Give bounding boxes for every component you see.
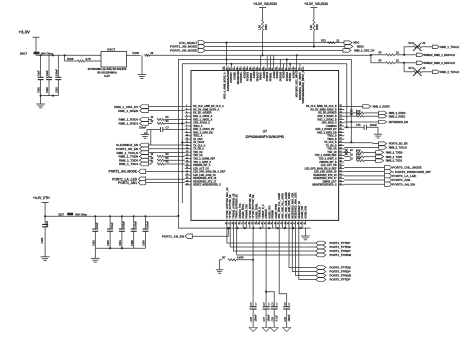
capacitor C203 wire xyxy=(57,55,59,77)
node C164 xyxy=(121,215,123,217)
wire pin drop xyxy=(260,55,262,66)
wire r548 join xyxy=(395,54,405,56)
svg-text:26: 26 xyxy=(225,222,227,224)
wire pin drop xyxy=(286,60,288,67)
wire R158 branch xyxy=(64,55,66,61)
wire ring1 xyxy=(178,60,351,216)
svg-text:38: 38 xyxy=(265,222,267,224)
wire capA drop xyxy=(252,225,254,307)
wire RMII_1_TXCLK xyxy=(149,152,185,154)
svg-text:100: 100 xyxy=(223,67,225,70)
pin stub left 17 xyxy=(185,158,191,160)
svg-text:10nF: 10nF xyxy=(38,70,41,76)
ground ETH caps xyxy=(91,257,100,259)
wire capC feed xyxy=(266,292,274,307)
svg-text:C192: C192 xyxy=(38,87,41,93)
svg-text:R146: R146 xyxy=(133,51,140,55)
pin stub bottom 29 xyxy=(236,220,238,224)
svg-text:77: 77 xyxy=(298,68,300,70)
wire PORT1_AN1 xyxy=(146,182,185,184)
wire pin drop xyxy=(273,55,275,66)
net arrow RMII_2_TXCLK dnp xyxy=(432,70,439,73)
svg-text:91: 91 xyxy=(253,68,255,70)
svg-text:MDC: MDC xyxy=(354,41,360,45)
net lens PORT0_TPTDM xyxy=(316,266,326,270)
wire PORT1_SD_EN xyxy=(149,148,185,150)
pin stub right 72 xyxy=(339,115,345,117)
svg-text:49: 49 xyxy=(300,222,303,224)
pin stub left 7 xyxy=(185,125,191,127)
wire pin drop xyxy=(266,55,268,66)
wire PORT1_AN_MODE run xyxy=(205,46,345,48)
svg-text:89: 89 xyxy=(259,68,261,70)
wire PORT0_CHL_MODE xyxy=(344,167,384,169)
wire dnp1 b xyxy=(404,46,413,48)
net arrow RMII_2_TXD1 xyxy=(376,159,384,162)
wire SD_EN xyxy=(344,142,378,145)
wire dnp2 v xyxy=(403,63,405,72)
capacitor C164 wire xyxy=(121,216,123,229)
net flag PORT0_AN_EN xyxy=(385,182,392,186)
pin stub right 69 xyxy=(339,125,345,127)
svg-text:83: 83 xyxy=(279,68,281,70)
svg-text:50MHZ_RMII_1_REFCLK: 50MHZ_RMII_1_REFCLK xyxy=(424,53,455,57)
svg-text:68: 68 xyxy=(340,128,342,130)
pin stub right 68 xyxy=(339,128,345,130)
node v2-row link xyxy=(181,141,183,143)
pin stub left 4 xyxy=(185,115,191,117)
pin stub top 88 xyxy=(263,66,265,70)
wire RMII_2_TXEN b xyxy=(364,151,376,153)
pin stub top 76 xyxy=(302,66,304,70)
pin stub left 13 xyxy=(185,145,191,147)
wire c74-clk25 link xyxy=(150,130,152,146)
wire c74 right xyxy=(163,129,185,131)
svg-text:72: 72 xyxy=(340,115,342,117)
svg-text:27: 27 xyxy=(229,222,231,224)
svg-text:100nF: 100nF xyxy=(55,69,58,76)
wire rbias right xyxy=(236,259,253,261)
capacitor C77 xyxy=(263,306,270,308)
node C166 xyxy=(144,215,146,217)
wire pin-gnd drop xyxy=(232,225,234,229)
svg-text:VDDIO/RESERVED_INPUT_X: VDDIO/RESERVED_INPUT_X xyxy=(302,70,305,103)
svg-text:28: 28 xyxy=(232,222,234,224)
svg-text:10uF: 10uF xyxy=(96,222,99,228)
node gndbus xyxy=(236,227,238,229)
svg-text:R1?: R1? xyxy=(409,42,414,45)
pin stub top 86 xyxy=(270,66,272,70)
svg-text:35: 35 xyxy=(255,222,257,224)
node rail-C202 xyxy=(52,54,54,56)
svg-text:43: 43 xyxy=(280,222,283,224)
ground C77 xyxy=(262,328,270,332)
svg-text:79: 79 xyxy=(292,68,294,70)
node rail-C192 xyxy=(40,54,42,56)
node C162 xyxy=(94,215,96,217)
wire cap25 a xyxy=(344,126,364,128)
wire pin-gnd drop xyxy=(242,225,244,229)
svg-text:85: 85 xyxy=(272,68,274,70)
pin stub bottom 33 xyxy=(249,220,251,224)
wire pin-gnd drop xyxy=(249,225,251,229)
svg-text:RMII_2_CRS_DV: RMII_2_CRS_DV xyxy=(354,49,375,53)
svg-text:95: 95 xyxy=(240,68,242,70)
svg-text:5: 5 xyxy=(186,118,187,120)
pin stub top 95 xyxy=(240,66,242,70)
svg-text:3.3V: 3.3V xyxy=(104,74,110,78)
wire refclk1 xyxy=(404,54,416,56)
wire ETH stem xyxy=(44,202,46,216)
net arrow RMII_2_CRS_DV xyxy=(343,49,351,52)
pin stub right 55 xyxy=(339,171,345,173)
ground bus symbol xyxy=(304,228,306,236)
svg-text:RESET_N/RESERVED_X: RESET_N/RESERVED_X xyxy=(193,184,221,187)
pin stub bottom 45 xyxy=(288,220,290,224)
net lens PORT0_TPTDP xyxy=(316,278,326,282)
pin stub left 18 xyxy=(185,161,191,163)
svg-text:R152: R152 xyxy=(316,24,319,30)
wire PORT0_AN_EN xyxy=(344,183,384,185)
svg-text:100nF: 100nF xyxy=(123,221,126,228)
pin stub right 74 xyxy=(339,109,345,111)
node gndbus xyxy=(228,227,230,229)
pin stub right 70 xyxy=(339,122,345,124)
wire R158-OSC xyxy=(85,60,102,62)
svg-text:57: 57 xyxy=(340,164,342,166)
pin stub top 83 xyxy=(279,66,281,70)
pin stub bottom 31 xyxy=(242,220,244,224)
pin stub bottom 39 xyxy=(268,220,270,224)
pin stub bottom 44 xyxy=(285,220,287,224)
wire ethgnd stem xyxy=(94,248,96,258)
svg-text:10nF: 10nF xyxy=(46,70,49,76)
wire r628 join xyxy=(395,62,405,64)
pin stub top 85 xyxy=(273,66,275,70)
pin stub top 78 xyxy=(296,66,298,70)
svg-text:R142: R142 xyxy=(356,113,361,116)
pin stub right 52 xyxy=(339,181,345,183)
svg-text:63: 63 xyxy=(340,144,342,146)
pin stub top 94 xyxy=(243,66,245,70)
net lens PORT1_TPTDP xyxy=(316,241,326,245)
svg-text:C165: C165 xyxy=(131,240,134,246)
svg-text:C?: C? xyxy=(284,302,287,306)
wire CLK25MHZ_EN xyxy=(149,144,185,146)
wire pin drop xyxy=(289,64,291,66)
svg-text:RMII_1_TXCLK: RMII_1_TXCLK xyxy=(440,45,459,49)
wire PORT1_TPTDM xyxy=(230,225,316,247)
wire capD feed xyxy=(279,225,287,307)
pin stub bottom 30 xyxy=(239,220,241,224)
svg-text:60: 60 xyxy=(340,154,342,156)
pin stub bottom 48 xyxy=(298,220,300,224)
node gndbus xyxy=(300,227,302,229)
pin stub left 9 xyxy=(185,132,191,134)
svg-text:PORT1_AN_EN: PORT1_AN_EN xyxy=(162,234,184,238)
capacitor C166 wire xyxy=(145,216,147,229)
pin stub top 80 xyxy=(289,66,291,70)
wire pin-gnd drop xyxy=(246,225,248,229)
pin stub bottom 26 xyxy=(226,220,228,224)
wire osc branch v xyxy=(370,55,372,63)
wire EXTENDER_EN xyxy=(344,121,378,123)
pin stub left 19 xyxy=(185,164,191,166)
net arrow RMII_2_RXD1 xyxy=(379,115,387,118)
wire C78 gnd xyxy=(273,309,275,328)
wire RMII_1_TXD0 a xyxy=(149,159,153,161)
wire pin drop xyxy=(230,64,232,66)
capacitor C182 wire xyxy=(44,216,46,224)
wire pin-gnd drop xyxy=(272,225,274,229)
svg-text:R145: R145 xyxy=(356,157,361,160)
svg-text:30: 30 xyxy=(239,222,241,224)
wire ETH_RESET run xyxy=(205,42,344,44)
node railB-mdio xyxy=(313,45,315,47)
svg-text:40: 40 xyxy=(270,222,273,224)
svg-text:56: 56 xyxy=(340,167,342,169)
net arrow RMII_2_RXD0 xyxy=(379,111,387,114)
pin stub left 15 xyxy=(185,151,191,153)
pin stub top 96 xyxy=(237,66,239,70)
svg-text:23: 23 xyxy=(186,177,188,179)
svg-text:R158: R158 xyxy=(67,57,74,61)
svg-text:C?: C? xyxy=(166,126,170,129)
svg-text:C202: C202 xyxy=(46,87,49,93)
wire +3.3V stem xyxy=(35,37,37,55)
node drop xyxy=(296,54,298,56)
svg-text:42: 42 xyxy=(277,222,280,224)
capacitor C192 xyxy=(38,76,44,78)
svg-text:41: 41 xyxy=(273,222,276,224)
wire RMII_2_TXD1 xyxy=(344,160,350,162)
pin stub right 53 xyxy=(339,177,345,179)
pin stub top 91 xyxy=(253,66,255,70)
svg-text:70: 70 xyxy=(340,122,342,124)
pin stub right 59 xyxy=(339,158,345,160)
pin stub bottom 35 xyxy=(255,220,257,224)
pin stub left 12 xyxy=(185,141,191,143)
svg-text:U7: U7 xyxy=(263,130,267,134)
wire PORT1_AN_MODE xyxy=(146,170,185,172)
pin stub top 99 xyxy=(227,66,229,70)
svg-text:600 Ohm: 600 Ohm xyxy=(41,51,53,55)
svg-text:PORT0_SD_EN: PORT0_SD_EN xyxy=(389,142,408,146)
svg-text:55: 55 xyxy=(340,171,342,173)
svg-text:58: 58 xyxy=(340,161,342,163)
IC U7 DP83849IFVS/NOPB body xyxy=(191,71,339,221)
svg-text:600 Ohm: 600 Ohm xyxy=(75,212,87,216)
net arrow RMII_2_TXEN xyxy=(376,151,384,154)
svg-text:33: 33 xyxy=(248,222,250,224)
svg-text:65: 65 xyxy=(340,138,342,140)
wire cap common xyxy=(41,95,59,97)
wire RXD0b xyxy=(364,112,379,114)
wire PORT0_TPRDP xyxy=(292,225,316,272)
svg-text:RMII_2_RXER: RMII_2_RXER xyxy=(373,105,390,109)
wire PORT0_AN1 xyxy=(344,179,384,181)
wire RMII_1_RXD0 b xyxy=(165,119,185,121)
pin stub left 14 xyxy=(185,148,191,150)
svg-text:10: 10 xyxy=(186,135,188,137)
wire pin-gnd drop xyxy=(291,225,293,229)
pin stub left 16 xyxy=(185,154,191,156)
svg-text:32: 32 xyxy=(245,222,247,224)
net lens PORT1_TPRDP xyxy=(316,249,326,253)
node drop xyxy=(289,63,291,65)
node drop xyxy=(230,63,232,65)
wire RMII_1_TXD0 b xyxy=(165,159,185,161)
pin stub top 93 xyxy=(247,66,249,70)
svg-text:6: 6 xyxy=(186,122,187,124)
svg-text:31: 31 xyxy=(242,222,244,224)
wire dnp1 v xyxy=(403,47,405,55)
wire pin drop xyxy=(283,64,285,66)
wire RMII_1_TXD1 b xyxy=(165,163,185,165)
wire pin-gnd drop xyxy=(285,225,287,229)
pin stub bottom 37 xyxy=(262,220,264,224)
svg-text:100nF: 100nF xyxy=(288,314,291,321)
net arrow RMII_2_RXER xyxy=(363,105,371,108)
capacitor C166 xyxy=(143,228,149,230)
wire PORT1_AN_EN xyxy=(192,228,228,236)
pin stub top 81 xyxy=(286,66,288,70)
svg-text:C162: C162 xyxy=(92,240,95,246)
svg-text:48: 48 xyxy=(296,222,299,224)
svg-text:62: 62 xyxy=(340,148,342,150)
svg-text:PORT1_AN_MODE: PORT1_AN_MODE xyxy=(109,170,137,174)
wire 50MHz run xyxy=(149,54,371,56)
pin stub left 22 xyxy=(185,174,191,176)
svg-text:96: 96 xyxy=(236,68,238,70)
wire railB stem xyxy=(313,8,315,20)
wire gnd bus bottom xyxy=(178,216,310,228)
svg-text:16: 16 xyxy=(186,154,188,156)
wire OSC out xyxy=(127,54,141,56)
node rbias-capA xyxy=(252,259,254,261)
pin stub bottom 42 xyxy=(278,220,280,224)
wire pin-gnd drop xyxy=(298,225,300,229)
pin stub right 51 xyxy=(339,184,345,186)
wire PORT0_PWRDOWN_INT xyxy=(344,171,384,173)
wire pin drop xyxy=(296,55,298,66)
svg-text:82: 82 xyxy=(282,68,284,70)
svg-text:21: 21 xyxy=(186,171,188,173)
svg-text:PORT0_TPTDP: PORT0_TPTDP xyxy=(330,278,351,282)
svg-text:+3.3V: +3.3V xyxy=(19,29,30,34)
svg-text:36: 36 xyxy=(258,222,260,224)
wire railA stem xyxy=(262,8,264,20)
pin stub right 62 xyxy=(339,148,345,150)
pin stub right 60 xyxy=(339,154,345,156)
svg-text:AGND_P26: AGND_P26 xyxy=(304,205,307,218)
capacitor C182 xyxy=(42,224,48,226)
svg-text:100nF: 100nF xyxy=(135,221,138,228)
wire pin-gnd drop xyxy=(282,225,284,229)
svg-text:22: 22 xyxy=(150,51,153,55)
node ethcap b2 xyxy=(109,247,111,249)
wire ethcap bus xyxy=(95,247,145,249)
node C163 xyxy=(109,215,111,217)
pin stub top 97 xyxy=(234,66,236,70)
svg-text:86: 86 xyxy=(269,68,271,70)
node gndbus xyxy=(268,227,270,229)
wire 3.3V rail xyxy=(36,54,101,56)
svg-text:3: 3 xyxy=(186,112,187,114)
svg-text:1: 1 xyxy=(186,105,187,107)
svg-text:+3.3V_VAUX33: +3.3V_VAUX33 xyxy=(304,2,328,6)
pin stub right 58 xyxy=(339,161,345,163)
pin stub bottom 43 xyxy=(282,220,284,224)
capacitor C163 wire xyxy=(109,216,111,229)
node capB xyxy=(265,291,267,293)
svg-text:81: 81 xyxy=(285,68,287,70)
svg-text:78: 78 xyxy=(295,68,297,70)
oscillator OSC7 body xyxy=(101,52,127,68)
pin stub left 5 xyxy=(185,119,191,121)
pin stub right 57 xyxy=(339,164,345,166)
svg-text:RMII_2_RXD1: RMII_2_RXD1 xyxy=(389,114,406,118)
DNP x mark row47 xyxy=(345,152,348,155)
node anmode xyxy=(225,42,227,44)
svg-text:73: 73 xyxy=(340,112,342,114)
svg-text:69: 69 xyxy=(340,125,342,127)
wire RMII_2_TXD1 b xyxy=(364,160,376,162)
pin stub right 67 xyxy=(339,132,345,134)
pin stub bottom 49 xyxy=(301,220,303,224)
pin stub left 25 xyxy=(185,184,191,186)
ground decoupling xyxy=(36,103,45,105)
svg-text:37: 37 xyxy=(261,222,263,224)
svg-text:97: 97 xyxy=(233,68,235,70)
node eth xyxy=(44,215,46,217)
capacitor C79 xyxy=(283,306,290,308)
ground C79 xyxy=(283,328,291,332)
node oscout xyxy=(370,54,372,56)
svg-text:20: 20 xyxy=(186,167,188,169)
svg-text:10uF: 10uF xyxy=(46,220,49,226)
svg-text:1.6K: 1.6K xyxy=(259,25,262,30)
pin stub left 11 xyxy=(185,138,191,140)
capacitor C202 xyxy=(46,76,52,78)
svg-text:C?: C? xyxy=(271,302,274,306)
wire RMII_1_RXD1 b xyxy=(165,122,185,124)
svg-text:18: 18 xyxy=(186,161,188,163)
net arrow 50MHZ_RMII_1_REFCLK xyxy=(416,53,423,56)
capacitor C202 wire xyxy=(48,55,50,77)
svg-text:1.6K: 1.6K xyxy=(310,25,313,30)
pin stub right 71 xyxy=(339,119,345,121)
svg-text:88: 88 xyxy=(262,68,264,70)
resistor R152 1.6K xyxy=(313,20,315,31)
capacitor C165 xyxy=(131,228,137,230)
wire pin drop xyxy=(299,64,301,66)
svg-text:R72: R72 xyxy=(321,38,326,42)
node ring2-cap xyxy=(346,126,348,128)
svg-text:87: 87 xyxy=(266,68,268,70)
wire OSC gnd stem xyxy=(141,55,143,74)
svg-text:12: 12 xyxy=(186,141,188,143)
capacitor C162 xyxy=(92,228,98,230)
node gndbus xyxy=(276,227,278,229)
wire gnd stem xyxy=(40,96,42,104)
pin stub bottom 38 xyxy=(265,220,267,224)
svg-text:4.7K: 4.7K xyxy=(85,57,91,61)
pin stub left 1 xyxy=(185,105,191,107)
net arrow MDC xyxy=(344,41,352,44)
ground RBIAS xyxy=(216,269,223,271)
wire PORT1_LA_LED xyxy=(146,178,185,180)
